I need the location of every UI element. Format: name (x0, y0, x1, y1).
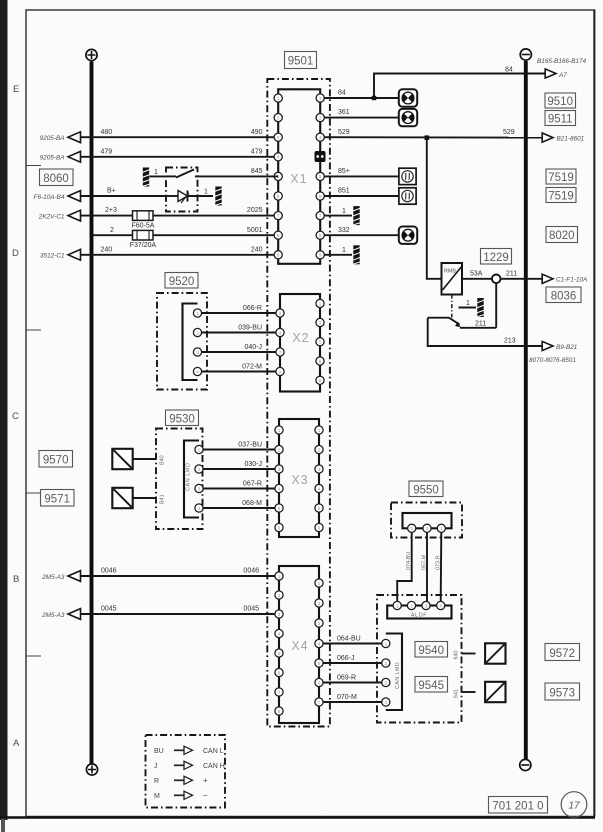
X3 right pin 5 (315, 504, 323, 512)
arrow to B21-8601 (542, 133, 553, 142)
arrow to F6-10A-B4 (68, 191, 81, 202)
wire 479 row (79, 156, 274, 158)
box 9520 label (165, 273, 198, 289)
X1 right pin 3 (316, 133, 324, 141)
fuse F60-5A (132, 211, 155, 230)
arrow to C1-F1-10A (542, 274, 553, 283)
supply bus bottom terminal (86, 764, 97, 775)
X3 left pin 6 (275, 523, 283, 531)
wire 529 (324, 136, 545, 138)
connector X4 body (279, 566, 319, 723)
lamp H1 (399, 89, 417, 106)
wire 039-BU (202, 332, 276, 334)
supply bus top terminal (86, 49, 97, 60)
X4 left pin 2 (275, 591, 283, 599)
X4 left pin 1 (275, 572, 283, 580)
X2 right pin 1 (316, 299, 324, 307)
antenna square T1 (112, 449, 132, 469)
module 9520 connector (183, 304, 198, 381)
X4 left pin 3 (275, 610, 283, 618)
X1 left pin 9 (274, 251, 282, 259)
arrow to 3512-C1 (68, 249, 81, 260)
9550 pin 3 (423, 524, 431, 532)
wire 068-M (203, 507, 274, 509)
legend row R (154, 776, 208, 785)
margin tick y493 (26, 492, 41, 494)
module 9550 boundary (391, 503, 462, 538)
margin tick y656 (26, 655, 41, 657)
9540 pin 2 (382, 659, 390, 667)
9520 pin 2 (193, 328, 201, 336)
X1 left pin 5 (274, 172, 282, 180)
X4 right pin 3 (315, 619, 323, 627)
X1 right pin 9 (316, 251, 324, 259)
arrow to 2M5-A3 (0046) (68, 571, 81, 582)
module 9540-9545 boundary (377, 595, 462, 723)
relay link dash (451, 295, 453, 318)
arrow to B9-B21 (542, 341, 553, 350)
X1 left pin 2 (274, 114, 282, 122)
wire 361 (324, 117, 399, 119)
X4 right pin 2 (315, 599, 323, 607)
legend row M (154, 791, 208, 800)
X3 left pin 4 (275, 484, 283, 492)
wire 84 to A7 (374, 74, 545, 99)
ALDF pin 1 (393, 601, 401, 609)
X3 right pin 6 (315, 523, 323, 531)
ground stub X1 pin7 (324, 206, 360, 225)
box 9570 (39, 451, 73, 468)
wire 069-R (323, 682, 381, 684)
box 9511 (545, 111, 576, 126)
box 9573 (545, 683, 580, 700)
X1 right pin 6 (316, 192, 324, 200)
X4 left pin 7 (275, 688, 283, 696)
X1 right pin 5 (316, 172, 324, 180)
box 9540 (415, 642, 448, 658)
box 8020 (546, 227, 578, 243)
9530 pin 4 (195, 504, 203, 512)
X4 left pin 5 (275, 649, 283, 657)
ALDF pin 3 (422, 601, 430, 609)
gauge symbol 11 (399, 188, 416, 204)
box 7519 a (546, 169, 576, 184)
box 1229 (481, 249, 512, 265)
wire 2 row (92, 234, 275, 236)
wire 057-M (426, 533, 428, 602)
X2 right pin 8 (316, 376, 324, 384)
connector X3 body (279, 419, 319, 537)
ALDF pin 2 (407, 601, 415, 609)
box 9510 (545, 93, 576, 108)
9550 pin 1 (437, 524, 445, 532)
X1 right pin 1 (316, 94, 324, 102)
margin tick y165 (26, 165, 41, 167)
wire 480 row (79, 136, 274, 138)
box 9550 label (409, 481, 443, 497)
X1 left pin 8 (274, 231, 282, 239)
X1 right pin 7 (316, 212, 324, 220)
legend box (146, 735, 226, 808)
ground bus top terminal (520, 49, 531, 60)
diode ground (204, 187, 223, 206)
wire out 640 (462, 653, 476, 655)
lamp H3 (399, 227, 417, 244)
X4 left pin 4 (275, 629, 283, 637)
X1 keying mark (315, 151, 326, 162)
relay RMB (442, 263, 463, 295)
antenna square T3 (485, 643, 505, 663)
wire B+ row (79, 195, 166, 197)
box 7519 b (546, 188, 576, 203)
fuse F37-20A (130, 230, 157, 249)
wire 213 (428, 318, 545, 346)
arrow to A7 (545, 69, 556, 78)
wire 0046 row (79, 575, 275, 577)
connector X1 body (278, 89, 320, 263)
9550 pin 2 (408, 524, 416, 532)
wire 240 row (79, 254, 274, 256)
X1 left pin 6 (274, 192, 282, 200)
X4 right pin 6 (315, 678, 323, 686)
box 8036 (546, 287, 581, 303)
box 9571 (41, 490, 75, 507)
wire 211 contact (460, 327, 496, 329)
9520 pin 3 (193, 348, 201, 356)
wire 84 (324, 97, 399, 99)
relay coil ground (459, 298, 485, 317)
ground bus - (524, 61, 528, 759)
X3 left pin 5 (275, 504, 283, 512)
X3 right pin 1 (315, 426, 323, 434)
X2 right pin 3 (316, 318, 324, 326)
wire 066-J (323, 662, 381, 664)
X3 left pin 3 (275, 465, 283, 473)
sheet circle 17 (561, 792, 587, 818)
X3 right pin 3 (315, 465, 323, 473)
wire 529 to relay (427, 138, 442, 279)
margin tick y330 (26, 329, 41, 331)
wire 066-R (202, 312, 276, 314)
X1 right pin 8 (316, 231, 324, 239)
X3 left pin 1 (275, 426, 283, 434)
X4 left pin 8 (275, 707, 283, 715)
9520 pin 1 (193, 309, 201, 317)
module 9520 boundary (157, 293, 207, 390)
antenna square T4 (485, 682, 505, 702)
X3 left pin 2 (275, 445, 283, 453)
switch contact (166, 170, 278, 178)
9530 pin 2 (195, 465, 203, 473)
ALDF pin 4 (437, 601, 445, 609)
X2 left pin 9 (276, 367, 284, 375)
wire 072-M (202, 371, 276, 373)
X1 left pin 7 (274, 212, 282, 220)
wire 851 (324, 195, 399, 197)
arrow to 9205-BA (479) (68, 151, 81, 162)
box 9530 label (166, 410, 199, 426)
title box 701 201 0 (489, 797, 548, 814)
box 9572 (545, 644, 580, 661)
wire 2+3 row (79, 215, 274, 217)
9520 pin 4 (193, 367, 201, 375)
X1 right pin 2 (316, 114, 324, 122)
ground stub X1 pin9 (324, 245, 360, 264)
legend row BU (154, 746, 224, 755)
arrow to 2M5-A3 (0045) (68, 609, 81, 620)
wire 85+ (324, 175, 399, 177)
9540 pin 3 (382, 678, 390, 686)
X2 right pin 5 (316, 338, 324, 346)
module 9550 connector (403, 513, 452, 528)
node 529 junction (425, 135, 430, 140)
supply bus + (90, 62, 94, 764)
X4 right pin 1 (315, 579, 323, 587)
ground bus bottom terminal (520, 759, 531, 770)
wire 067-R (203, 488, 274, 490)
wire 073-R (440, 533, 443, 602)
wire 53A (462, 278, 492, 280)
arrow to 2K2V-C1 (68, 210, 81, 221)
X2 left pin 2 (276, 309, 284, 317)
switch ground (142, 168, 166, 187)
wire 0045 row (79, 613, 275, 615)
X4 right pin 4 (315, 639, 323, 647)
wire 040-J (202, 351, 276, 353)
wire junction drop (495, 283, 497, 328)
module ALDF connector (387, 606, 451, 619)
X2 left pin 7 (276, 348, 284, 356)
switch module box (166, 168, 198, 212)
node junction 211 (492, 275, 501, 284)
wire 064-BU (323, 643, 381, 645)
X1 left pin 1 (274, 94, 282, 102)
lamp H2 (399, 109, 417, 126)
wire T2 to 9530 (133, 497, 156, 499)
module 9501 boundary (267, 79, 330, 727)
scan edge strip (0, 0, 8, 832)
X2 left pin 4 (276, 328, 284, 336)
wire 030-J (203, 468, 274, 470)
antenna square T2 (112, 488, 132, 508)
relay contact arm (428, 318, 461, 328)
wire 074-BU (397, 533, 412, 602)
module 9530 connector (184, 441, 199, 518)
legend row J (154, 761, 225, 770)
box 9545 (415, 677, 448, 693)
wire T1 to 9530 (133, 458, 156, 460)
wire 211 out (500, 278, 545, 280)
module 9540 connector (386, 634, 402, 711)
wire 037-BU (203, 449, 274, 451)
connector X2 body (280, 294, 320, 392)
wire out 641 (462, 691, 476, 693)
9540 pin 4 (382, 698, 390, 706)
X3 right pin 2 (315, 445, 323, 453)
X4 right pin 7 (315, 698, 323, 706)
paper grain (0, 0, 1, 1)
X1 left pin 3 (274, 133, 282, 141)
gauge symbol 12 (399, 168, 416, 184)
box 8060 (40, 169, 74, 186)
arrow to 9205-BA (480) (68, 132, 81, 143)
X2 right pin 6 (316, 357, 324, 365)
9530 pin 1 (195, 445, 203, 453)
module 9530 boundary (156, 429, 203, 530)
diode D1 (166, 191, 213, 204)
module 9501 label box (285, 52, 317, 69)
node 84/A7 (372, 96, 376, 100)
X4 right pin 5 (315, 659, 323, 667)
X4 left pin 6 (275, 668, 283, 676)
wire 070-M (323, 701, 381, 703)
wire 332 (324, 234, 399, 236)
X1 left pin 4 (274, 153, 282, 161)
X3 right pin 4 (315, 484, 323, 492)
9530 pin 3 (195, 484, 203, 492)
9540 pin 1 (382, 639, 390, 647)
